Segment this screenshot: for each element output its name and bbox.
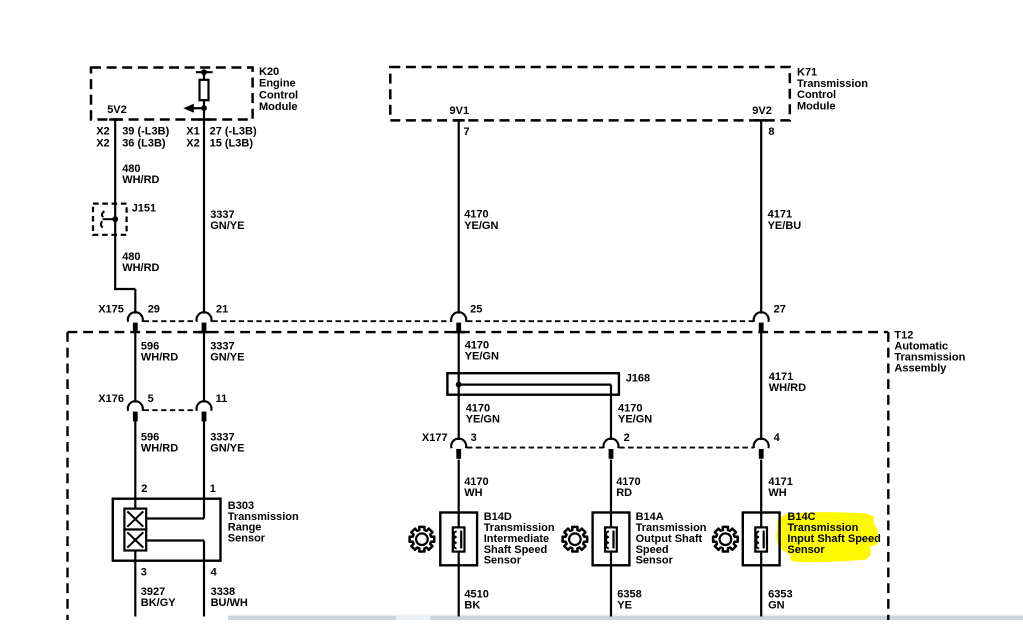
gear icon at B14D (410, 527, 435, 552)
wire 596 WH/RD X176 to B303 pin 2 (134, 421, 136, 509)
connector X177 pin 4 (754, 439, 769, 449)
wire 480 WH/RD from K20 X2 (114, 120, 116, 291)
svg-text:27: 27 (774, 304, 786, 316)
connector X175 pin 25 (451, 312, 466, 322)
wire 3338 BU/WH from B303 pin 4 (203, 541, 205, 617)
svg-text:Module: Module (259, 101, 298, 113)
junction node at resistor output (201, 105, 207, 111)
wire jog to X175 pin 29 (114, 288, 135, 290)
svg-text:8: 8 (768, 126, 774, 138)
svg-text:5V2: 5V2 (107, 104, 127, 116)
svg-text:WH: WH (464, 487, 482, 499)
svg-text:YE/BU: YE/BU (768, 220, 802, 232)
svg-text:Engine: Engine (259, 78, 296, 90)
svg-text:11: 11 (216, 393, 228, 405)
svg-text:WH/RD: WH/RD (141, 351, 178, 363)
gear icon at B14C (713, 527, 738, 552)
wire 4170 YE/GN X175 to X177 through J168 (458, 333, 460, 441)
assembly box T12 top edge (68, 331, 889, 333)
resistor inside K20 (196, 71, 213, 73)
connector X175 line (144, 320, 754, 322)
svg-text:X177: X177 (422, 432, 448, 444)
wire 4170 WH X177 to B14D (458, 460, 460, 528)
svg-text:2: 2 (141, 483, 147, 495)
bottom UI bar (228, 615, 1023, 621)
svg-text:WH/RD: WH/RD (122, 174, 159, 186)
connector X176 pin 11 (197, 401, 212, 411)
svg-text:RD: RD (616, 487, 632, 499)
svg-text:X1: X1 (186, 126, 199, 138)
svg-text:7: 7 (464, 126, 470, 138)
svg-text:J168: J168 (626, 373, 650, 385)
svg-text:X176: X176 (98, 393, 124, 405)
svg-text:25: 25 (470, 304, 482, 316)
svg-text:27 (-L3B): 27 (-L3B) (210, 126, 257, 138)
svg-text:GN/YE: GN/YE (210, 351, 244, 363)
svg-text:1: 1 (210, 483, 216, 495)
svg-text:WH/RD: WH/RD (769, 382, 806, 394)
svg-text:39 (-L3B): 39 (-L3B) (122, 126, 169, 138)
wire 4171 WH X177 to B14C (760, 460, 762, 528)
svg-text:GN: GN (768, 600, 785, 612)
dash fills at wire crossings of box edges (109, 120, 767, 333)
highlighter mark over B14C label (776, 512, 878, 562)
connector X177 line (467, 447, 753, 449)
connector X175 pin 21 (197, 312, 212, 322)
wire 3337 GN/YE X175 to X176 (203, 333, 205, 403)
svg-text:WH: WH (768, 487, 786, 499)
connector X177 pin 2 (604, 439, 619, 449)
svg-text:X2: X2 (96, 137, 109, 149)
module box K20 Engine Control Module (91, 68, 253, 120)
svg-text:GN/YE: GN/YE (210, 443, 244, 455)
assembly box T12 left edge (66, 332, 68, 620)
B303 switch element 1 (124, 509, 146, 530)
svg-text:21: 21 (216, 304, 228, 316)
svg-text:15 (L3B): 15 (L3B) (210, 137, 254, 149)
svg-text:YE/GN: YE/GN (465, 350, 499, 362)
svg-text:Sensor: Sensor (787, 544, 825, 556)
svg-text:K71: K71 (797, 66, 817, 78)
svg-text:4: 4 (774, 432, 781, 444)
svg-text:Sensor: Sensor (636, 555, 674, 567)
wire 596 WH/RD X175 to X176 (134, 333, 136, 403)
connector X177 pin 3 (451, 439, 466, 449)
arrow to 5V reference (192, 107, 204, 109)
sensor B303 Transmission Range Sensor box (113, 499, 221, 561)
connector X176 line (144, 409, 197, 411)
wire 3337 GN/YE from K20 X1 (203, 100, 205, 314)
svg-text:4171: 4171 (768, 209, 792, 221)
sensor box B14C (743, 513, 780, 566)
svg-text:3: 3 (471, 432, 477, 444)
svg-text:5: 5 (148, 393, 154, 405)
wire 6353 GN from B14C (760, 551, 762, 617)
gear icon at B14A (563, 527, 588, 552)
svg-text:BK: BK (464, 600, 480, 612)
connector X175 pin 27 (754, 312, 769, 322)
wire 4510 BK from B14D (458, 551, 460, 617)
svg-text:Sensor: Sensor (228, 533, 266, 545)
svg-text:X2: X2 (96, 126, 109, 138)
svg-text:BK/GY: BK/GY (141, 597, 177, 609)
svg-text:YE/GN: YE/GN (466, 414, 500, 426)
wire 4170 YE/GN from J168 to X177 pin 2 (610, 385, 612, 440)
wire 4170 YE/GN from K71 pin 7 (458, 120, 460, 313)
wire 3337 GN/YE X176 to B303 pin 1 (203, 421, 205, 519)
svg-text:Assembly: Assembly (894, 363, 947, 375)
svg-text:Control: Control (259, 89, 298, 101)
B303 internal wiring (146, 517, 204, 519)
svg-text:Module: Module (797, 101, 836, 113)
svg-text:Sensor: Sensor (484, 555, 522, 567)
wire into X175 pin 29 (134, 289, 136, 314)
svg-text:3: 3 (141, 566, 147, 578)
module box K71 Transmission Control Module (390, 67, 790, 120)
svg-text:Control: Control (797, 89, 836, 101)
svg-text:Transmission: Transmission (797, 78, 868, 90)
svg-text:4170: 4170 (464, 209, 488, 221)
B303 switch element 2 (124, 530, 146, 551)
wire 4171 YE/BU from K71 pin 8 (760, 120, 762, 313)
connector X175 pin 29 (128, 312, 143, 322)
splice J151 symbol (102, 211, 104, 217)
svg-text:YE/GN: YE/GN (618, 414, 652, 426)
svg-text:X175: X175 (98, 304, 124, 316)
svg-text:YE/GN: YE/GN (464, 220, 498, 232)
svg-text:X2: X2 (186, 137, 199, 149)
sensor box B14A (593, 513, 630, 566)
svg-text:YE: YE (617, 600, 632, 612)
svg-text:36 (L3B): 36 (L3B) (122, 137, 166, 149)
svg-text:2: 2 (624, 432, 630, 444)
svg-text:GN/YE: GN/YE (210, 220, 244, 232)
assembly box T12 right edge (887, 332, 889, 620)
sensor box B14D (440, 513, 477, 566)
connector X176 pin 5 (128, 401, 143, 411)
wire 4170 RD X177 to B14A (610, 460, 612, 528)
svg-text:BU/WH: BU/WH (211, 597, 248, 609)
wire 3927 BK/GY from B303 pin 3 (134, 551, 136, 617)
svg-text:9V2: 9V2 (752, 105, 772, 117)
svg-text:9V1: 9V1 (450, 105, 470, 117)
svg-text:K20: K20 (259, 66, 279, 78)
svg-text:4: 4 (211, 566, 218, 578)
svg-text:29: 29 (148, 304, 160, 316)
svg-text:WH/RD: WH/RD (122, 262, 159, 274)
wire 6358 YE from B14A (610, 551, 612, 617)
splice pack J168 (447, 373, 619, 395)
splice J151 box (93, 204, 127, 235)
wire 4171 WH/RD X175 to X177 (760, 333, 762, 441)
svg-text:WH/RD: WH/RD (141, 443, 178, 455)
svg-text:J151: J151 (132, 202, 156, 214)
